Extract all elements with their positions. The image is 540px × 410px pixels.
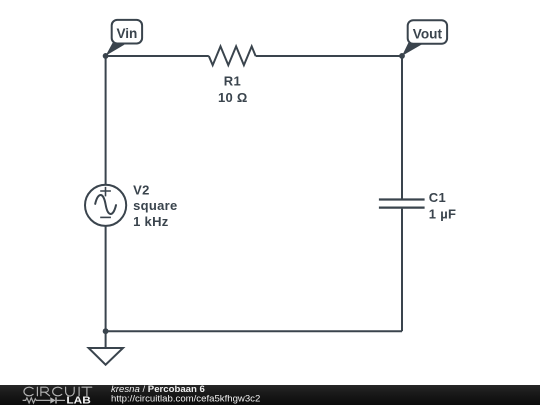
- svg-text:R1: R1: [224, 73, 241, 88]
- wire left lower (V2 to ground junction): [105, 226, 107, 331]
- wire top-right (R1 to Vout node): [256, 55, 402, 57]
- wire left upper (Vin node to V2): [105, 56, 107, 185]
- value square: [133, 198, 177, 213]
- footer title kresna / Percobaan 6: [111, 384, 205, 395]
- resistor R1: [209, 46, 256, 65]
- wire right lower (C1 to bottom rail): [401, 209, 403, 332]
- svg-text:10 Ω: 10 Ω: [218, 90, 248, 105]
- svg-text:LAB: LAB: [66, 395, 90, 405]
- value 1 kHz: [133, 214, 169, 229]
- svg-text:V2: V2: [133, 183, 150, 198]
- value 10 Ω: [218, 90, 248, 105]
- svg-text:http://circuitlab.com/cefa5kfh: http://circuitlab.com/cefa5kfhgw3c2: [111, 393, 260, 404]
- CircuitLab logo LAB: [66, 395, 90, 406]
- label V2: [133, 183, 150, 198]
- svg-text:1 kHz: 1 kHz: [133, 214, 169, 229]
- node ground junction dot: [103, 328, 109, 334]
- label C1: [429, 190, 446, 205]
- svg-text:square: square: [133, 198, 177, 213]
- wire top-left (Vin node to R1): [106, 55, 209, 57]
- node Vin flag: [106, 20, 142, 56]
- CircuitLab logo resistor-diode symbol: [23, 397, 65, 403]
- capacitor C1: [379, 200, 425, 208]
- svg-text:1 µF: 1 µF: [429, 207, 456, 222]
- voltage source V2: [85, 185, 126, 226]
- wire ground stem: [105, 331, 107, 348]
- svg-text:Vout: Vout: [413, 26, 443, 41]
- footer url: [111, 393, 260, 404]
- ground: [89, 348, 123, 365]
- value 1 µF: [429, 207, 456, 222]
- node Vin junction dot: [103, 53, 109, 59]
- wire bottom rail: [106, 330, 402, 332]
- wire right upper (Vout node to C1): [401, 56, 403, 199]
- footer bar: [0, 385, 540, 405]
- node Vout junction dot: [399, 53, 405, 59]
- svg-text:Vin: Vin: [116, 26, 137, 41]
- label R1: [224, 73, 241, 88]
- svg-text:C1: C1: [429, 190, 446, 205]
- CircuitLab logo CIRCUIT: [24, 387, 92, 396]
- node Vout flag: [402, 20, 447, 56]
